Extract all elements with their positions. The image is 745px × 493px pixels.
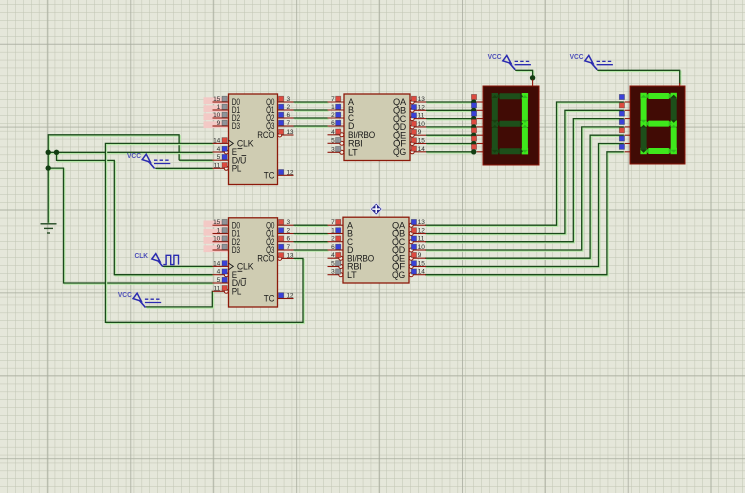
svg-text:6: 6 bbox=[287, 112, 291, 119]
svg-text:5: 5 bbox=[217, 277, 221, 284]
wire U3.Q0-U4 bbox=[294, 225, 329, 226]
svg-text:12: 12 bbox=[287, 169, 294, 176]
counter U1 pin 3 Q0 bbox=[278, 101, 294, 103]
svg-text:13: 13 bbox=[418, 96, 425, 103]
counter U1 pin 10 D2 bbox=[213, 117, 229, 119]
svg-text:TC: TC bbox=[264, 294, 275, 304]
svg-text:1: 1 bbox=[217, 104, 221, 111]
counter U3 pin 5 D/U bbox=[213, 282, 229, 284]
svg-text:QG: QG bbox=[393, 147, 406, 157]
svg-text:15: 15 bbox=[418, 138, 425, 145]
counter U1 floating pin highlights bbox=[204, 97, 229, 104]
wire U2.QA-DISP1 bbox=[426, 102, 475, 103]
decoder U4 pin 3 LT bbox=[328, 274, 339, 276]
decoder U2 pin 3 LT bbox=[328, 151, 340, 153]
decoder U2 pin 12 QB bbox=[414, 109, 426, 111]
svg-text:PL: PL bbox=[232, 164, 242, 174]
svg-text:1: 1 bbox=[217, 228, 221, 235]
wire U4.QE-DISP2 bbox=[425, 135, 625, 259]
counter U1 pin 2 Q1 bbox=[278, 109, 294, 111]
DISP1 common pin stub bbox=[532, 80, 534, 87]
7-seg display DISP1 showing 1 segment G off bbox=[497, 121, 523, 127]
svg-text:LT: LT bbox=[348, 148, 358, 158]
counter U1 body bbox=[229, 94, 278, 185]
svg-text:14: 14 bbox=[418, 146, 425, 153]
wire to U1.E bbox=[48, 152, 213, 153]
7-seg display DISP2 showing 5 pin seg G bbox=[625, 151, 631, 153]
counter U3 pin 10 D2 bbox=[213, 241, 229, 243]
svg-text:9: 9 bbox=[418, 252, 422, 259]
svg-text:10: 10 bbox=[213, 236, 220, 243]
decoder U2 pin 14 QG bbox=[414, 151, 426, 153]
7-seg display DISP1 showing 1 segment C lit bbox=[522, 125, 528, 153]
7-seg display DISP1 showing 1 segment F off bbox=[492, 95, 498, 123]
svg-text:11: 11 bbox=[214, 285, 221, 292]
decoder U4 pin 1 B bbox=[328, 233, 344, 235]
svg-text:5: 5 bbox=[331, 137, 335, 144]
7-seg display DISP2 showing 5 segment D lit bbox=[646, 148, 672, 154]
power terminal VCC for U1.PL bbox=[127, 151, 170, 169]
svg-text:9: 9 bbox=[217, 244, 221, 251]
counter U1 pin 11 PL bbox=[213, 167, 225, 169]
7-seg display DISP2 showing 5 segment corner fills bbox=[640, 93, 646, 99]
wire gnd to U3.DU bbox=[48, 168, 213, 284]
svg-text:7: 7 bbox=[287, 244, 291, 251]
power terminal VCC for DISP2 bbox=[570, 52, 613, 69]
counter U3 pin 9 D3 bbox=[213, 249, 229, 251]
svg-text:2: 2 bbox=[331, 236, 335, 243]
svg-text:1: 1 bbox=[331, 228, 335, 235]
decoder U4 pin 12 QB bbox=[413, 233, 426, 235]
7-seg display DISP2 showing 5 pin seg F bbox=[625, 143, 631, 145]
counter U3 pin 11 PL bbox=[213, 290, 225, 292]
decoder U2 pin 6 D bbox=[328, 125, 345, 127]
wire U3.Q3-U4 bbox=[294, 250, 329, 251]
decoder U2 pin 5 RBI bbox=[328, 142, 340, 144]
clock source CLK bbox=[135, 251, 179, 267]
svg-text:14: 14 bbox=[213, 137, 220, 144]
wire VCC2-DISP2 bbox=[597, 70, 680, 85]
svg-text:12: 12 bbox=[418, 228, 425, 235]
svg-text:RCO: RCO bbox=[257, 254, 274, 264]
svg-text:15: 15 bbox=[213, 96, 220, 103]
7-seg display DISP2 showing 5 body bbox=[630, 86, 685, 164]
decoder U4 pin 14 QG bbox=[413, 274, 426, 276]
decoder U4 pin 15 QF bbox=[413, 266, 426, 268]
decoder U4 pin 4 BI/RBO bbox=[328, 257, 339, 259]
svg-text:10: 10 bbox=[213, 112, 220, 119]
7-seg display DISP1 showing 1 pin seg F bbox=[477, 143, 483, 145]
junction gnd-DU2 bbox=[46, 165, 51, 170]
counter U3 pin 14 CLK bbox=[213, 265, 229, 267]
wire U2.QG-DISP1 bbox=[426, 152, 475, 153]
svg-text:11: 11 bbox=[418, 236, 425, 243]
wire U4.QD-DISP2 bbox=[425, 127, 625, 251]
counter U1 pin 14 CLK bbox=[213, 142, 229, 144]
svg-text:D3: D3 bbox=[232, 121, 240, 131]
svg-text:QG: QG bbox=[392, 270, 405, 280]
wire U1.Q2-U2 bbox=[294, 118, 329, 119]
wire VCC3-U1.PL bbox=[155, 168, 213, 169]
7-seg display DISP2 showing 5 segment A lit bbox=[646, 93, 672, 99]
svg-text:10: 10 bbox=[418, 121, 425, 128]
svg-text:6: 6 bbox=[331, 120, 335, 127]
svg-text:VCC: VCC bbox=[570, 52, 584, 61]
wire U2.QE-DISP1 bbox=[426, 135, 475, 136]
svg-text:7: 7 bbox=[331, 96, 335, 103]
svg-text:13: 13 bbox=[418, 219, 425, 226]
counter U1 pin 7 Q3 bbox=[278, 125, 294, 127]
svg-text:4: 4 bbox=[331, 129, 335, 136]
svg-text:14: 14 bbox=[213, 260, 220, 267]
svg-text:CLK: CLK bbox=[135, 251, 149, 260]
svg-text:12: 12 bbox=[287, 293, 294, 300]
7-seg display DISP1 showing 1 pin seg B bbox=[477, 109, 483, 111]
wire U2.QD-DISP1 bbox=[426, 127, 475, 128]
7-seg display DISP2 showing 5 segment C lit bbox=[671, 125, 677, 153]
counter U3 pin 1 D1 bbox=[213, 233, 229, 235]
svg-text:PL: PL bbox=[232, 287, 242, 297]
wire U4.QC-DISP2 bbox=[425, 119, 625, 243]
svg-text:2: 2 bbox=[287, 104, 291, 111]
counter U3 pin 7 Q3 bbox=[278, 249, 294, 251]
wire U4.QA-DISP2 bbox=[425, 102, 625, 226]
junction disp1 pin4 bbox=[471, 124, 476, 129]
junction gnd-E bbox=[46, 150, 51, 155]
svg-text:D3: D3 bbox=[232, 245, 240, 255]
counter U3 pin 12 TC bbox=[278, 298, 294, 300]
decoder U4 pin 10 QD bbox=[413, 249, 426, 251]
junction gnd branch bbox=[54, 150, 59, 155]
decoder U4 pin 7 A bbox=[328, 224, 344, 226]
svg-text:VCC: VCC bbox=[118, 290, 132, 299]
7-seg display DISP2 showing 5 segment G lit bbox=[646, 121, 672, 127]
counter U3 pin 13 RCO bbox=[282, 257, 294, 259]
decoder U2 pin 13 QA bbox=[414, 101, 426, 103]
junction disp1 pin1 bbox=[471, 99, 476, 104]
7-seg display DISP1 showing 1 segment corner fills bbox=[492, 93, 498, 99]
7-seg display DISP2 showing 5 pin seg B bbox=[625, 109, 631, 111]
svg-text:4: 4 bbox=[331, 252, 335, 259]
counter U3 pin 6 Q2 bbox=[278, 241, 294, 243]
svg-text:10: 10 bbox=[418, 244, 425, 251]
wire U2.QC-DISP1 bbox=[426, 119, 475, 120]
decoder U2 pin 15 QF bbox=[414, 143, 426, 145]
wire U3.Q1-U4 bbox=[294, 234, 329, 235]
svg-text:VCC: VCC bbox=[488, 52, 502, 61]
counter U1 pin 4 E bbox=[213, 151, 225, 153]
decoder U2 body bbox=[344, 94, 410, 161]
origin marker bbox=[370, 202, 383, 215]
svg-text:2: 2 bbox=[331, 112, 335, 119]
wire U1.Q1-U2 bbox=[294, 110, 329, 111]
wire U3.RCO-U1.CLK bbox=[105, 143, 304, 323]
decoder U2 pin 10 QD bbox=[414, 126, 426, 128]
decoder U4 pin 9 QE bbox=[413, 257, 426, 259]
junction disp1 pin2 bbox=[471, 108, 476, 113]
decoder U2 pin 2 C bbox=[328, 117, 345, 119]
counter U3 pin 3 Q0 bbox=[278, 224, 294, 226]
7-seg display DISP2 showing 5 segment B off bbox=[671, 95, 677, 123]
svg-text:5: 5 bbox=[331, 261, 335, 268]
svg-text:3: 3 bbox=[331, 146, 335, 153]
7-seg display DISP1 showing 1 pin seg G bbox=[477, 151, 483, 153]
svg-text:7: 7 bbox=[331, 219, 335, 226]
svg-text:4: 4 bbox=[217, 146, 221, 153]
svg-text:VCC: VCC bbox=[127, 151, 141, 160]
junction disp1 pin7 bbox=[471, 149, 476, 154]
decoder U4 pin 6 D bbox=[328, 249, 344, 251]
decoder U4 pin 2 C bbox=[328, 241, 344, 243]
decoder U4 pin 11 QC bbox=[413, 241, 426, 243]
decoder U4 pin 13 QA bbox=[413, 224, 426, 226]
7-seg display DISP2 showing 5 segment F lit bbox=[641, 95, 647, 123]
svg-text:6: 6 bbox=[331, 244, 335, 251]
7-seg display DISP2 showing 5 pin seg A bbox=[625, 101, 631, 103]
junction disp1 pin3 bbox=[471, 116, 476, 121]
7-seg display DISP1 showing 1 pin seg C bbox=[477, 118, 483, 120]
svg-text:13: 13 bbox=[287, 252, 294, 259]
svg-text:15: 15 bbox=[213, 219, 220, 226]
wire U1.Q3-U2 bbox=[294, 126, 329, 127]
svg-text:14: 14 bbox=[418, 269, 425, 276]
decoder U4 pin 5 RBI bbox=[328, 266, 339, 268]
counter U1 pin 13 RCO bbox=[282, 134, 294, 136]
decoder U2 pin 4 BI/RBO bbox=[328, 134, 340, 136]
counter U1 pin 9 D3 bbox=[213, 125, 229, 127]
7-seg display DISP1 showing 1 pin seg D bbox=[477, 126, 483, 128]
decoder U2 pin 7 A bbox=[328, 101, 345, 103]
decoder U2 pin 9 QE bbox=[414, 134, 426, 136]
7-seg display DISP1 showing 1 body bbox=[483, 86, 539, 165]
counter U1 pin 5 D/U bbox=[213, 159, 229, 161]
wire U2.QF-DISP1 bbox=[426, 144, 475, 145]
wire U4.QB-DISP2 bbox=[425, 110, 625, 234]
decoder U2 pin 1 B bbox=[328, 109, 345, 111]
counter U3 pin 2 Q1 bbox=[278, 233, 294, 235]
7-seg display DISP1 showing 1 segment B lit bbox=[522, 95, 528, 123]
svg-text:LT: LT bbox=[347, 270, 357, 280]
svg-text:15: 15 bbox=[418, 261, 425, 268]
wire U3.Q2-U4 bbox=[294, 242, 329, 243]
7-seg display DISP2 showing 5 pin seg C bbox=[625, 118, 631, 120]
wire U4.QF-DISP2 bbox=[425, 144, 625, 268]
svg-text:13: 13 bbox=[287, 129, 294, 136]
wire U2.QB-DISP1 bbox=[426, 110, 475, 111]
svg-text:RCO: RCO bbox=[257, 130, 274, 140]
junction disp1 common bbox=[530, 75, 535, 80]
svg-text:4: 4 bbox=[217, 269, 221, 276]
wire VCC1-DISP1 bbox=[515, 70, 533, 79]
svg-text:CLK: CLK bbox=[237, 262, 254, 272]
counter U3 floating pin highlights bbox=[204, 221, 229, 228]
power terminal VCC for DISP1 bbox=[488, 52, 531, 69]
junction disp1 pin6 bbox=[471, 141, 476, 146]
counter U1 pin 12 TC bbox=[278, 174, 294, 176]
7-seg display DISP1 showing 1 segment A off bbox=[497, 93, 523, 99]
svg-text:12: 12 bbox=[418, 104, 425, 111]
wire ground rail bbox=[48, 135, 180, 224]
junction disp1 pin5 bbox=[471, 133, 476, 138]
decoder U4 body bbox=[343, 217, 409, 283]
svg-text:5: 5 bbox=[217, 154, 221, 161]
svg-text:3: 3 bbox=[287, 219, 291, 226]
svg-text:2: 2 bbox=[287, 228, 291, 235]
counter U3 body bbox=[229, 218, 278, 307]
7-seg display DISP1 showing 1 segment D off bbox=[497, 148, 523, 154]
counter U1 pin 6 Q2 bbox=[278, 117, 294, 119]
wire to U1.DU bbox=[179, 160, 213, 161]
svg-text:1: 1 bbox=[331, 104, 335, 111]
wire gnd to U3.E bbox=[57, 152, 214, 275]
7-seg display DISP2 showing 5 pin seg D bbox=[625, 126, 631, 128]
7-seg display DISP2 showing 5 segment E off bbox=[641, 125, 647, 153]
svg-text:11: 11 bbox=[214, 162, 221, 169]
counter U3 pin 4 E bbox=[213, 274, 225, 276]
7-seg display DISP1 showing 1 segment E off bbox=[492, 125, 498, 153]
svg-text:TC: TC bbox=[264, 171, 275, 181]
ground bbox=[41, 224, 57, 233]
wire VCC4-U3.PL bbox=[146, 291, 214, 308]
counter U1 pin 15 D0 bbox=[213, 101, 229, 103]
svg-text:11: 11 bbox=[418, 113, 425, 120]
7-seg display DISP1 showing 1 pin seg E bbox=[477, 134, 483, 136]
svg-text:CLK: CLK bbox=[237, 139, 254, 149]
decoder U2 pin 11 QC bbox=[414, 118, 426, 120]
wire U1.Q0-U2 bbox=[294, 102, 329, 103]
7-seg display DISP2 showing 5 pin seg E bbox=[625, 134, 631, 136]
svg-text:9: 9 bbox=[217, 120, 221, 127]
7-seg display DISP1 showing 1 pin seg A bbox=[477, 101, 483, 103]
power terminal VCC for U3.PL bbox=[118, 290, 161, 308]
DISP2 common pin stub bbox=[679, 83, 681, 86]
svg-text:7: 7 bbox=[287, 120, 291, 127]
svg-text:3: 3 bbox=[287, 96, 291, 103]
svg-text:3: 3 bbox=[331, 269, 335, 276]
wire CLKsrc-U3.CLK bbox=[163, 266, 214, 267]
svg-text:9: 9 bbox=[418, 129, 422, 136]
counter U3 pin 15 D0 bbox=[213, 224, 229, 226]
svg-text:6: 6 bbox=[287, 236, 291, 243]
wire U4.QG-DISP2 bbox=[425, 152, 625, 276]
counter U1 pin 1 D1 bbox=[213, 109, 229, 111]
